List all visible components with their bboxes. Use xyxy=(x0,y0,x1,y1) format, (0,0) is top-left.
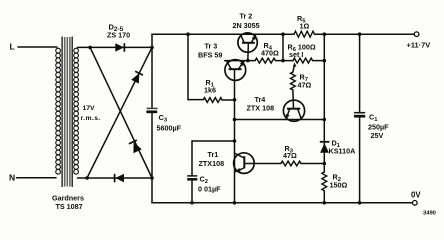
svg-text:ZTX 108: ZTX 108 xyxy=(247,103,275,112)
svg-text:47Ω: 47Ω xyxy=(283,151,297,160)
svg-text:TS 1087: TS 1087 xyxy=(56,202,83,211)
svg-text:KS110A: KS110A xyxy=(329,147,356,156)
svg-text:Tr 2: Tr 2 xyxy=(240,12,253,21)
svg-text:ZTX108: ZTX108 xyxy=(199,159,225,168)
svg-text:0V: 0V xyxy=(411,191,421,200)
svg-text:BFS 59: BFS 59 xyxy=(198,51,222,60)
svg-text:470Ω: 470Ω xyxy=(261,48,279,57)
svg-text:1k6: 1k6 xyxy=(204,86,216,95)
svg-text:17V: 17V xyxy=(83,105,96,112)
svg-text:Gardners: Gardners xyxy=(52,193,84,202)
svg-text:Tr1: Tr1 xyxy=(208,150,219,159)
svg-text:+11·7V: +11·7V xyxy=(407,40,431,49)
svg-text:set I: set I xyxy=(289,50,303,59)
svg-text:Tr 3: Tr 3 xyxy=(205,42,218,51)
svg-text:5600µF: 5600µF xyxy=(157,124,182,133)
svg-text:ZS 170: ZS 170 xyxy=(107,31,130,40)
svg-text:150Ω: 150Ω xyxy=(330,181,348,190)
svg-text:0 01µF: 0 01µF xyxy=(198,184,221,193)
svg-text:25V: 25V xyxy=(371,131,384,140)
svg-text:3490: 3490 xyxy=(423,211,436,216)
svg-text:2N 3055: 2N 3055 xyxy=(233,21,260,30)
svg-text:L: L xyxy=(10,42,15,52)
svg-text:r.m.s.: r.m.s. xyxy=(81,115,101,122)
svg-text:47Ω: 47Ω xyxy=(298,80,312,89)
svg-text:1Ω: 1Ω xyxy=(300,21,310,30)
svg-text:N: N xyxy=(9,173,15,183)
